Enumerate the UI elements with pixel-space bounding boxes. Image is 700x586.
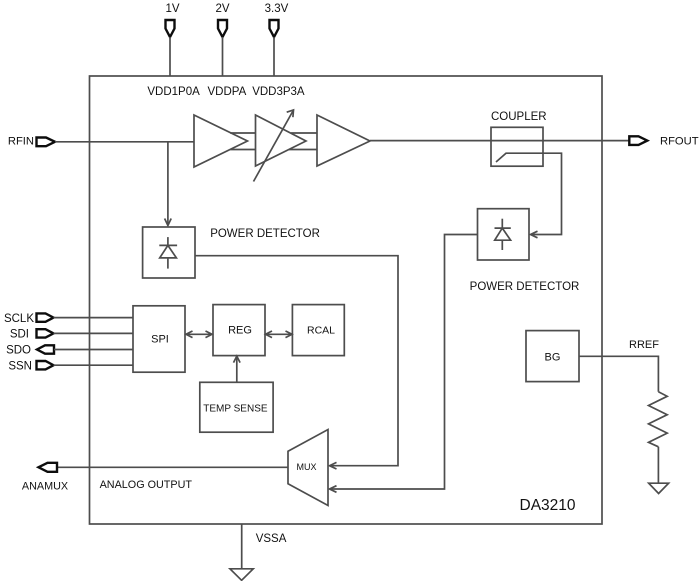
svg-text:ANAMUX: ANAMUX: [22, 480, 68, 492]
pin 2V: [218, 20, 227, 37]
svg-text:VDDPA: VDDPA: [208, 86, 247, 98]
resistor RREF: [649, 392, 668, 447]
wire SDO to SPI: [54, 349, 133, 351]
svg-text:2V: 2V: [215, 3, 229, 15]
svg-text:RFIN: RFIN: [8, 136, 34, 148]
svg-text:RCAL: RCAL: [307, 325, 335, 337]
svg-text:DA3210: DA3210: [520, 497, 576, 514]
power detector PD2: [478, 209, 530, 260]
port ANAMUX: [22, 463, 68, 493]
amplifier A2 variable gain: [254, 110, 307, 182]
svg-text:RFOUT: RFOUT: [660, 135, 699, 147]
svg-text:VSSA: VSSA: [256, 533, 287, 545]
port SDO: [6, 345, 54, 357]
svg-text:BG: BG: [545, 352, 561, 364]
wire 2V to chip: [222, 37, 224, 76]
block BG: [526, 331, 579, 382]
svg-text:COUPLER: COUPLER: [491, 111, 547, 123]
svg-text:SSN: SSN: [8, 360, 32, 372]
ground VSSA: [230, 569, 253, 581]
svg-text:POWER DETECTOR: POWER DETECTOR: [470, 281, 580, 293]
wire RFIN branch to PD1: [165, 142, 172, 226]
block SPI: [133, 306, 185, 372]
wire 3.3V to chip: [273, 37, 275, 76]
port RFOUT: [629, 135, 698, 147]
amplifier A1: [194, 115, 248, 167]
svg-text:SDI: SDI: [10, 329, 29, 341]
wire resistor to ground: [657, 447, 659, 483]
wire MUX output to ANAMUX: [57, 466, 288, 468]
wire 1V to chip: [169, 37, 171, 76]
wire REG-RCAL double arrow: [266, 331, 293, 338]
svg-text:3.3V: 3.3V: [265, 3, 289, 15]
wire PD2 output to MUX: [330, 235, 478, 493]
svg-text:SCLK: SCLK: [4, 313, 34, 325]
ground RREF: [649, 483, 669, 493]
wire SPI-REG double arrow: [186, 331, 212, 338]
wire VSSA stub: [241, 524, 243, 569]
wire RFIN to amp A1: [55, 141, 194, 143]
svg-text:SDO: SDO: [6, 345, 31, 357]
port SSN: [8, 360, 53, 372]
wire SSN to SPI: [54, 364, 134, 366]
power detector PD1: [143, 227, 195, 278]
amplifier A3: [317, 115, 370, 166]
svg-text:SPI: SPI: [151, 334, 169, 346]
wire coupled port to PD2: [496, 153, 562, 238]
block TEMP SENSE: [200, 382, 273, 432]
wire PD1 output to MUX: [195, 256, 398, 469]
pin 1V: [166, 20, 175, 37]
wire BG to resistor RREF: [579, 356, 658, 392]
svg-text:POWER DETECTOR: POWER DETECTOR: [210, 228, 320, 240]
svg-text:VDD3P3A: VDD3P3A: [252, 86, 305, 98]
svg-text:MUX: MUX: [297, 462, 317, 472]
svg-text:ANALOG OUTPUT: ANALOG OUTPUT: [100, 479, 193, 491]
svg-text:RREF: RREF: [629, 339, 659, 351]
port SCLK: [4, 313, 54, 325]
wire A2 to A3 differential: [289, 133, 317, 150]
mux MUX: [288, 430, 328, 506]
pin 3.3V: [270, 20, 279, 37]
chip outline DA3210: [90, 76, 603, 524]
port SDI: [10, 329, 54, 341]
svg-text:1V: 1V: [165, 3, 179, 15]
svg-text:REG: REG: [228, 325, 252, 337]
block RCAL: [292, 305, 344, 356]
svg-text:VDD1P0A: VDD1P0A: [147, 86, 200, 98]
port RFIN: [8, 136, 55, 148]
wire TEMP SENSE to REG arrow: [234, 356, 241, 382]
wire A1 to A2 differential: [230, 133, 255, 150]
coupler: [491, 111, 547, 166]
wire A3 to RFOUT: [370, 140, 629, 142]
block REG: [213, 305, 265, 356]
wire SCLK to SPI: [54, 317, 134, 319]
wire SDI to SPI: [54, 332, 134, 334]
svg-text:TEMP SENSE: TEMP SENSE: [203, 403, 268, 414]
